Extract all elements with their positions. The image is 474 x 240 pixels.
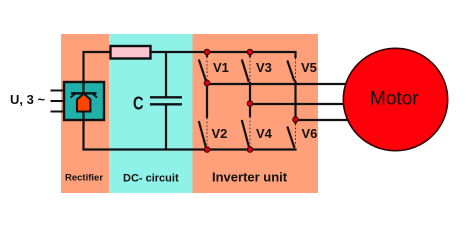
junction: phase 1 node <box>204 80 210 86</box>
resistor (DC link charging resistor) <box>111 46 151 59</box>
switch V3: blade <box>242 60 249 83</box>
wire: rectifier output up to top rail <box>84 52 111 82</box>
switch V3: dotted contact line <box>249 57 251 81</box>
block shading: frequency converter (orange) <box>61 34 318 193</box>
switch V6: blade <box>287 127 294 149</box>
switch V6: stub <box>294 120 296 124</box>
switch V4: blade <box>242 120 249 147</box>
rectifier diode symbol: top lead <box>82 82 84 95</box>
svg-text:V3: V3 <box>256 60 272 75</box>
wire: supply phase stub 3 <box>51 111 65 113</box>
junction: top rail / V3 <box>247 49 253 55</box>
junction: bottom rail / V4 <box>247 147 253 153</box>
wire: capacitor bottom lead <box>165 104 167 149</box>
wire: phase output 2 to motor <box>250 103 350 105</box>
switch V6: dotted contact line <box>295 124 297 146</box>
wire: phase output 1 to motor <box>207 83 350 85</box>
wire: capacitor top lead <box>165 52 167 97</box>
capacitor C: top plate <box>150 96 182 98</box>
rectifier diode symbol: cathode bar <box>71 92 97 94</box>
switch V1: blade <box>199 60 206 81</box>
wire: V3 to phase node <box>249 82 251 104</box>
block shading: DC circuit (cyan) <box>109 34 193 193</box>
rectifier box <box>64 82 104 120</box>
wire: V1 to phase node <box>206 80 208 84</box>
switch V1: dotted contact line <box>206 57 208 80</box>
svg-text:Inverter unit: Inverter unit <box>212 170 288 185</box>
svg-text:Motor: Motor <box>370 89 419 110</box>
switch V2: blade <box>199 121 206 147</box>
motor M <box>343 48 447 150</box>
junction: phase 3 node <box>293 117 299 123</box>
switch V1: stub <box>206 52 208 57</box>
switch V4: stub <box>249 104 251 117</box>
capacitor C: bottom plate <box>150 103 182 105</box>
svg-text:V5: V5 <box>301 60 317 75</box>
svg-text:V6: V6 <box>302 126 318 141</box>
switch V2: dotted contact line <box>206 118 208 147</box>
switch V4: dotted contact line <box>249 117 251 147</box>
svg-text:V2: V2 <box>212 126 228 141</box>
svg-text:V1: V1 <box>213 60 229 75</box>
wire: supply phase stub 1 <box>51 90 65 92</box>
rectifier diode symbol: left bar tick <box>71 93 76 97</box>
wire: supply phase stub 2 <box>51 100 65 102</box>
wire: top DC rail <box>151 51 297 53</box>
junction: bottom rail / V2 <box>204 147 210 153</box>
rectifier diode symbol: right bar tick <box>92 93 97 97</box>
rectifier diode symbol: bottom lead <box>82 112 84 121</box>
wire: V5 to phase node <box>294 81 296 120</box>
svg-text:U, 3 ~: U, 3 ~ <box>10 92 45 107</box>
junction: phase 2 node <box>247 101 253 107</box>
svg-text:V4: V4 <box>256 126 273 141</box>
switch V5: stub <box>294 52 296 58</box>
svg-text:DC- circuit: DC- circuit <box>123 173 179 185</box>
switch V3: stub <box>249 52 251 57</box>
switch V2: stub <box>206 84 208 118</box>
switch V5: dotted contact line <box>295 58 297 81</box>
svg-text:Rectifier: Rectifier <box>65 173 103 184</box>
rectifier diode symbol: anode body <box>77 94 90 112</box>
wire: phase output 3 to motor <box>296 119 353 121</box>
switch V5: blade <box>287 61 294 82</box>
junction: top rail / V1 <box>204 49 210 55</box>
svg-text:C: C <box>133 94 144 114</box>
wire: rectifier to bottom DC rail <box>84 120 297 150</box>
